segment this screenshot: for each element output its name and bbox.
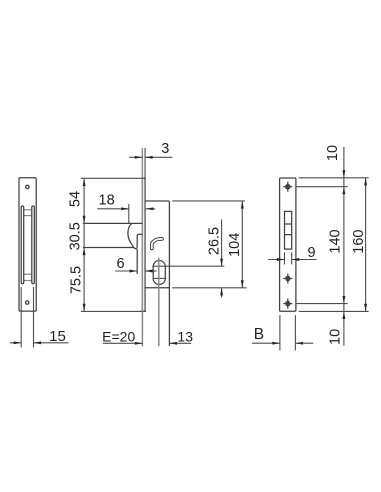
faceplate left edge extension down (E reference) <box>141 312 143 347</box>
svg-text:15: 15 <box>49 328 66 345</box>
svg-text:30.5: 30.5 <box>68 222 84 250</box>
case right edge extension down (13 reference) <box>168 288 170 346</box>
label 54 <box>67 191 83 207</box>
svg-text:10: 10 <box>327 329 343 345</box>
dimension 3 <box>129 141 172 159</box>
dimension 9 <box>268 245 316 261</box>
dimension 9 extension lines <box>285 252 292 264</box>
svg-text:54: 54 <box>67 191 83 207</box>
strike plate outline <box>280 178 296 311</box>
left plate channel left rail <box>21 206 24 284</box>
svg-text:18: 18 <box>99 192 115 208</box>
dimension E=20 <box>102 329 142 345</box>
left plate channel right rail <box>32 206 35 284</box>
left vertical dimension line 54/30.5/75.5 <box>83 178 86 311</box>
case top extension line (104) <box>172 200 245 202</box>
cylinder hole top arc centerline / 26.5 extension <box>152 265 224 267</box>
lock faceplate (edge view, 3mm thick) <box>142 178 146 311</box>
svg-text:160: 160 <box>351 229 367 253</box>
case bottom extension line <box>172 287 246 289</box>
dimension 15 extension lines <box>21 287 33 348</box>
dimension 26.5 line <box>207 220 223 298</box>
lock case body <box>145 201 169 288</box>
cylinder hole oval <box>153 261 165 285</box>
left plate outline <box>19 178 36 311</box>
label 160 <box>351 229 367 253</box>
dimension 18 <box>97 192 155 223</box>
inner right dimension line 10/140/10 <box>342 147 345 346</box>
cylinder vertical centerline <box>158 258 160 347</box>
keyhole lever shape <box>152 239 162 249</box>
label 30.5 <box>68 222 84 250</box>
dimension B extension lines <box>280 315 296 350</box>
strike plate bottom screw hole <box>283 299 292 309</box>
label 10 top <box>325 145 341 161</box>
svg-text:3: 3 <box>161 141 169 157</box>
svg-text:75.5: 75.5 <box>68 266 84 294</box>
svg-text:E=20: E=20 <box>102 329 135 345</box>
dimension 15 <box>10 328 69 345</box>
extension line at plate top (54) <box>81 177 142 179</box>
extension line at faceplate bottom (75.5) <box>81 310 146 312</box>
svg-text:26.5: 26.5 <box>207 227 223 255</box>
label 140 <box>328 229 344 253</box>
svg-text:B: B <box>254 326 264 343</box>
label 75.5 <box>68 266 84 294</box>
left plate bottom screw hole <box>26 301 29 304</box>
latch bolt bottom edge <box>83 247 134 249</box>
left plate channel crossbars <box>24 209 32 281</box>
svg-text:104: 104 <box>227 233 243 257</box>
latch bolt nose <box>128 223 142 248</box>
svg-text:13: 13 <box>177 329 193 345</box>
svg-text:140: 140 <box>328 229 344 253</box>
dimension 104 line <box>227 201 244 288</box>
label 10 bottom <box>327 329 343 345</box>
latch inner body line <box>136 249 138 274</box>
dimension 6 <box>115 256 156 272</box>
svg-text:6: 6 <box>116 256 124 272</box>
dimension B <box>252 326 313 345</box>
strike plate middle screw hole <box>283 274 292 284</box>
dimension 3 extension lines <box>142 148 145 178</box>
svg-text:10: 10 <box>325 145 341 161</box>
svg-text:9: 9 <box>307 245 315 261</box>
left plate top screw hole <box>26 185 29 188</box>
outer right dimension line 160 <box>364 178 367 312</box>
strike plate slot <box>285 211 292 249</box>
right extension lines <box>296 178 368 312</box>
cylinder hole bottom arc centerline <box>153 277 167 279</box>
latch bolt top edge <box>83 222 142 224</box>
dimension 13 <box>169 329 193 345</box>
strike plate top screw hole <box>283 182 292 192</box>
